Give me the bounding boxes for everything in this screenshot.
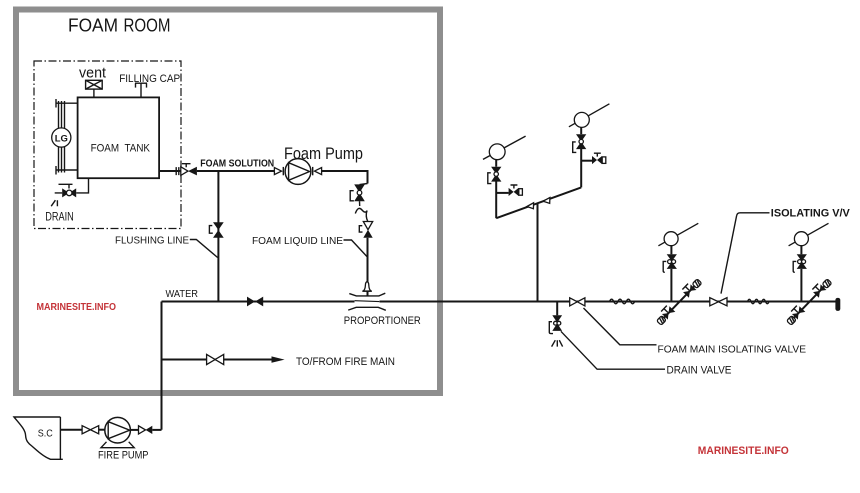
water valve	[247, 297, 255, 307]
svg-text:S.C: S.C	[38, 429, 53, 440]
vent symbol	[86, 80, 103, 97]
svg-text:FILLING CAP: FILLING CAP	[119, 73, 180, 85]
monitor M2 hose coupling	[602, 157, 606, 164]
monitor M2 head	[574, 112, 589, 127]
arrow to fire main	[272, 356, 285, 362]
svg-text:FIRE PUMP: FIRE PUMP	[98, 450, 149, 462]
drain open end	[51, 193, 62, 206]
monitor M1 barrel	[483, 136, 526, 159]
foam tank	[78, 97, 160, 178]
hydrant H1 hose connection	[654, 277, 702, 326]
hydrant H1 barrel	[658, 223, 698, 246]
svg-text:MARINESITE.INFO: MARINESITE.INFO	[698, 445, 789, 457]
level gauge LG	[52, 128, 71, 147]
foam room gray border	[16, 10, 440, 394]
drain branch pipe	[556, 302, 558, 316]
foam liquid valve V1	[354, 184, 365, 192]
monitor M2 barrel	[569, 104, 610, 127]
foam main pipe right	[380, 301, 837, 303]
pipe break coil 2	[748, 299, 770, 303]
riser to fire pump	[161, 302, 163, 430]
svg-text:TANK: TANK	[125, 143, 151, 155]
hydrant H2 barrel	[789, 223, 829, 246]
monitor M1 isolation valve	[491, 167, 501, 174]
pipe check valve to riser	[152, 429, 161, 431]
pipe pump to check valve	[130, 429, 138, 431]
foam liquid valve V1 jog	[360, 184, 368, 185]
fire pump suction valve	[82, 426, 90, 434]
leader flushing line	[190, 240, 218, 258]
foam main isolating valve FV	[570, 298, 578, 306]
monitor M2 stem	[580, 127, 582, 134]
monitor M2 stem lower	[580, 149, 582, 188]
drain open end	[552, 340, 563, 346]
monitor group riser	[537, 204, 539, 302]
monitor group header diagonal	[496, 187, 581, 218]
monitor M2 isolation valve	[576, 134, 586, 141]
fire main branch pipe	[162, 359, 273, 361]
monitor M1 stem	[495, 160, 497, 167]
tank outlet valve	[176, 164, 197, 176]
svg-text:LG: LG	[55, 133, 68, 144]
svg-text:TO/FROM FIRE MAIN: TO/FROM FIRE MAIN	[296, 356, 395, 368]
hydrant H2 stem	[800, 246, 802, 255]
svg-text:FOAM SOLUTION: FOAM SOLUTION	[200, 159, 274, 170]
hydrant H1 head	[664, 232, 678, 246]
svg-text:FOAM: FOAM	[91, 143, 120, 155]
svg-text:FOAM LIQUID LINE: FOAM LIQUID LINE	[252, 235, 343, 247]
hydrant H2 valve	[797, 254, 807, 261]
isolating valve IV	[710, 298, 719, 306]
foam solution pipe to pump	[197, 170, 275, 172]
monitor M1 hose valve	[509, 188, 514, 196]
level gauge piping	[56, 99, 78, 175]
drain valve DV	[552, 315, 562, 322]
monitor M1 hose branch	[496, 192, 508, 194]
flushing valve	[213, 222, 224, 230]
hydrant H1 valve	[667, 254, 677, 261]
sea chest box	[14, 417, 63, 459]
hydrant H1 riser	[670, 269, 672, 302]
svg-text:DRAIN: DRAIN	[45, 212, 74, 224]
svg-text:DRAIN VALVE: DRAIN VALVE	[667, 365, 732, 377]
leader isolating valve	[721, 213, 770, 294]
svg-text:ISOLATING V/V: ISOLATING V/V	[771, 207, 851, 219]
foam pump suction flange	[274, 168, 281, 175]
flushing line pipe	[217, 171, 219, 302]
leader drain valve	[561, 331, 665, 369]
svg-text:FOAM: FOAM	[68, 15, 118, 36]
flow arrow 1	[527, 203, 534, 209]
filling cap symbol	[135, 83, 147, 97]
leader foam main isolating valve	[584, 308, 657, 345]
fire main branch valve	[207, 354, 216, 364]
flexible joint squiggle	[355, 201, 368, 221]
foam solution pipe from tank	[159, 170, 181, 172]
foam liquid pipe down	[367, 238, 369, 296]
tank drain pipe	[76, 178, 88, 193]
foam pump U1	[285, 159, 311, 185]
monitor M1 hose coupling	[519, 189, 523, 196]
fire pump P1	[105, 417, 131, 443]
pipe break coil 1	[610, 299, 635, 304]
proportioner injector bell	[363, 282, 371, 291]
svg-text:FOAM MAIN ISOLATING VALVE: FOAM MAIN ISOLATING VALVE	[658, 344, 807, 355]
svg-text:MARINESITE.INFO: MARINESITE.INFO	[37, 301, 117, 313]
fire pump check valve	[139, 426, 146, 434]
flow arrow 2	[543, 198, 550, 204]
fire pump base	[101, 442, 134, 448]
proportioner venturi	[349, 293, 385, 296]
svg-text:PROPORTIONER: PROPORTIONER	[344, 315, 421, 327]
foam main end cap	[835, 298, 840, 311]
svg-text:FLUSHING LINE: FLUSHING LINE	[115, 235, 189, 247]
tank enclosure dashed box	[34, 61, 181, 229]
water main pipe	[162, 301, 355, 303]
hydrant H1 stem	[670, 246, 672, 255]
svg-text:ROOM: ROOM	[124, 15, 171, 36]
tank drain valve	[62, 188, 69, 197]
foam liquid valve V2	[363, 222, 372, 230]
hydrant H2 hose connection	[784, 277, 832, 326]
leader foam liquid line	[344, 240, 367, 257]
svg-text:WATER: WATER	[166, 288, 199, 300]
foam pump discharge flange	[312, 167, 314, 175]
monitor M1 head	[489, 144, 505, 160]
svg-text:vent: vent	[79, 66, 106, 82]
hydrant H2 head	[794, 232, 808, 246]
hydrant H2 riser	[800, 269, 802, 302]
monitor M2 hose valve	[592, 156, 597, 164]
foam pump discharge pipe	[322, 171, 368, 184]
suction pipe	[60, 429, 82, 431]
monitor M1 riser	[495, 182, 497, 219]
monitor M2 hose branch	[581, 160, 592, 162]
